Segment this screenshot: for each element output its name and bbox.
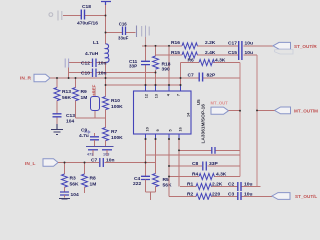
port IN_R [20, 74, 50, 82]
capacitor C18 [63, 4, 106, 27]
svg-text:C7: C7 [188, 72, 195, 78]
svg-text:+REF: +REF [92, 84, 97, 96]
svg-text:R10: R10 [111, 98, 120, 104]
svg-text:100K: 100K [111, 104, 123, 110]
capacitor C1 [60, 192, 79, 198]
svg-text:104: 104 [66, 119, 74, 125]
svg-text:390: 390 [162, 67, 170, 73]
svg-text:104: 104 [71, 192, 79, 198]
wire IN_L [58, 162, 156, 164]
resistor R15 [171, 50, 216, 58]
wire rowC [180, 186, 261, 188]
svg-text:C2: C2 [228, 182, 235, 188]
wire rowA [169, 165, 240, 167]
inductor L1 [85, 40, 109, 62]
capacitor C19 [212, 147, 215, 154]
capacitor C7 10n (IN_L coupling) [91, 158, 114, 168]
svg-text:C7: C7 [91, 158, 98, 164]
svg-text:12: 12 [145, 94, 149, 98]
capacitor C15 [228, 50, 253, 60]
wire rowB [169, 176, 240, 178]
capacitor C8 [192, 161, 218, 171]
resistor R16 [171, 40, 216, 49]
svg-text:103: 103 [103, 153, 109, 157]
capacitor C9 [79, 128, 99, 147]
svg-text:MT_OUT/M: MT_OUT/M [294, 108, 318, 113]
svg-text:100K: 100K [111, 135, 123, 141]
svg-text:IN_R: IN_R [20, 76, 31, 82]
resistor R7 [103, 128, 124, 147]
svg-text:R8: R8 [90, 176, 97, 182]
svg-text:56K: 56K [163, 183, 172, 189]
svg-text:R13: R13 [62, 89, 71, 95]
capacitor C4 [133, 139, 150, 192]
resistor R13 [54, 78, 71, 114]
svg-text:C18: C18 [82, 4, 91, 10]
svg-text:10u: 10u [245, 41, 253, 47]
gray polarized cap (left stub) [49, 11, 62, 21]
port MT_OUT mid [211, 101, 241, 115]
svg-text:R2: R2 [187, 192, 194, 198]
resistor R2 [187, 192, 220, 200]
svg-text:4.7u: 4.7u [79, 133, 89, 139]
wire vertical V257 [256, 55, 258, 187]
resistor R10 [103, 97, 124, 111]
trimmer RT1 [91, 89, 100, 119]
svg-text:R1: R1 [187, 182, 194, 188]
capacitor C11 [129, 59, 150, 69]
resistor R18 [153, 46, 171, 85]
IC top pins [146, 85, 181, 91]
IC pin names top [145, 93, 181, 98]
svg-text:4.7uH: 4.7uH [85, 51, 99, 57]
resistor R1 [187, 182, 223, 190]
svg-text:ST_OUT/L: ST_OUT/L [295, 194, 317, 199]
IC U5 LA3361 [134, 91, 207, 144]
node line [86, 146, 114, 148]
svg-text:10u: 10u [244, 182, 252, 188]
wire vertical pin1 column [145, 46, 147, 85]
svg-text:R16: R16 [171, 40, 180, 46]
svg-text:2.2K: 2.2K [212, 182, 223, 188]
svg-text:C3: C3 [228, 192, 235, 198]
svg-text:R7: R7 [111, 129, 118, 135]
ceramic filter (gray) [137, 26, 150, 46]
resistor R9 [73, 78, 106, 118]
svg-text:C15: C15 [228, 50, 237, 56]
svg-text:473: 473 [87, 153, 93, 157]
svg-text:R6: R6 [188, 57, 195, 63]
wire gnd run [146, 192, 156, 200]
svg-text:R15: R15 [171, 50, 180, 56]
capacitor C16 [106, 21, 136, 40]
svg-text:10: 10 [146, 127, 150, 131]
capacitor C5 [102, 150, 112, 157]
wire vertical V240 [239, 63, 241, 177]
wire main vertical node [105, 62, 107, 97]
svg-text:56K: 56K [62, 95, 71, 101]
svg-text:L1: L1 [93, 40, 99, 46]
capacitor C7 82P (row4) [188, 72, 216, 81]
wire IN_R [50, 68, 199, 79]
power VCC bar [101, 2, 111, 6]
IC pin names bottom [146, 127, 183, 131]
svg-text:220: 220 [212, 192, 220, 198]
resistor R5 [153, 139, 172, 192]
svg-text:C16: C16 [119, 21, 128, 26]
svg-text:10u: 10u [245, 50, 253, 56]
svg-text:ST_OUT/R: ST_OUT/R [294, 44, 317, 49]
wire rowD [169, 196, 272, 198]
svg-text:10n: 10n [98, 61, 106, 67]
svg-text:R4: R4 [192, 172, 199, 178]
port ST_OUT/L [272, 193, 317, 200]
port MT_OUT right [257, 107, 318, 114]
svg-text:10u: 10u [244, 192, 252, 198]
wire H150 [179, 149, 240, 151]
wire row3 [181, 62, 241, 64]
svg-text:5: 5 [169, 129, 173, 131]
svg-text:33P: 33P [209, 161, 218, 167]
resistor R4 [192, 172, 227, 180]
svg-text:MT_OUT: MT_OUT [211, 101, 229, 106]
wire V179 bottom [178, 139, 180, 187]
svg-text:C17: C17 [228, 41, 237, 47]
capacitor C13 [53, 113, 76, 125]
svg-text:56K: 56K [70, 182, 79, 188]
wire top bus [106, 84, 181, 86]
svg-text:33uF: 33uF [118, 35, 129, 40]
svg-text:33P: 33P [129, 64, 137, 69]
wire vertical VCC feed [105, 5, 107, 44]
svg-text:R5: R5 [163, 177, 170, 183]
wire V169 bottom [168, 139, 170, 197]
svg-text:4.3K: 4.3K [215, 57, 226, 63]
capacitor C6 [87, 150, 98, 157]
port ST_OUT/R [273, 42, 317, 54]
svg-text:C8: C8 [192, 161, 199, 167]
wire row2 [156, 54, 258, 56]
wire bus2 [146, 154, 241, 156]
svg-text:82P: 82P [207, 72, 216, 78]
svg-text:222: 222 [133, 181, 141, 187]
svg-text:470uF/16: 470uF/16 [77, 21, 98, 27]
port IN_L [25, 159, 58, 167]
svg-text:1M: 1M [90, 182, 97, 188]
svg-text:1M: 1M [81, 95, 88, 101]
svg-text:7: 7 [177, 94, 181, 96]
capacitor C10 [69, 69, 156, 78]
wire [105, 110, 107, 128]
IC bottom pins [146, 134, 180, 140]
wire vertical V169 top (pin 3 riser) [168, 46, 170, 85]
capacitor C2 [228, 182, 252, 192]
svg-text:R9: R9 [81, 89, 88, 95]
svg-text:C13: C13 [66, 113, 75, 119]
svg-text:13: 13 [155, 94, 159, 98]
svg-text:16: 16 [179, 127, 183, 131]
resistor R6 [188, 57, 226, 65]
resistor R8 [82, 163, 97, 194]
svg-text:4.3K: 4.3K [216, 172, 227, 178]
svg-text:2.4K: 2.4K [205, 50, 216, 56]
capacitor C12 [65, 59, 106, 68]
svg-text:9: 9 [156, 129, 160, 131]
svg-text:C10: C10 [81, 71, 90, 77]
svg-text:10n: 10n [98, 71, 106, 77]
ground [59, 199, 70, 201]
wire row1 stereo out R [142, 45, 273, 47]
svg-text:U5: U5 [196, 99, 201, 105]
svg-text:R3: R3 [70, 176, 77, 182]
svg-text:10n: 10n [106, 158, 114, 164]
wire row4 [203, 77, 240, 79]
capacitor C17 [228, 41, 253, 51]
ground [51, 124, 63, 135]
capacitor C3 [228, 192, 252, 201]
svg-text:2.2K: 2.2K [205, 40, 216, 46]
svg-text:LA3361M/SOP-16: LA3361M/SOP-16 [200, 104, 206, 144]
svg-text:C9: C9 [81, 128, 88, 134]
svg-text:IN_L: IN_L [25, 161, 35, 167]
svg-text:C12: C12 [81, 61, 90, 67]
resistor R3 [62, 163, 79, 192]
